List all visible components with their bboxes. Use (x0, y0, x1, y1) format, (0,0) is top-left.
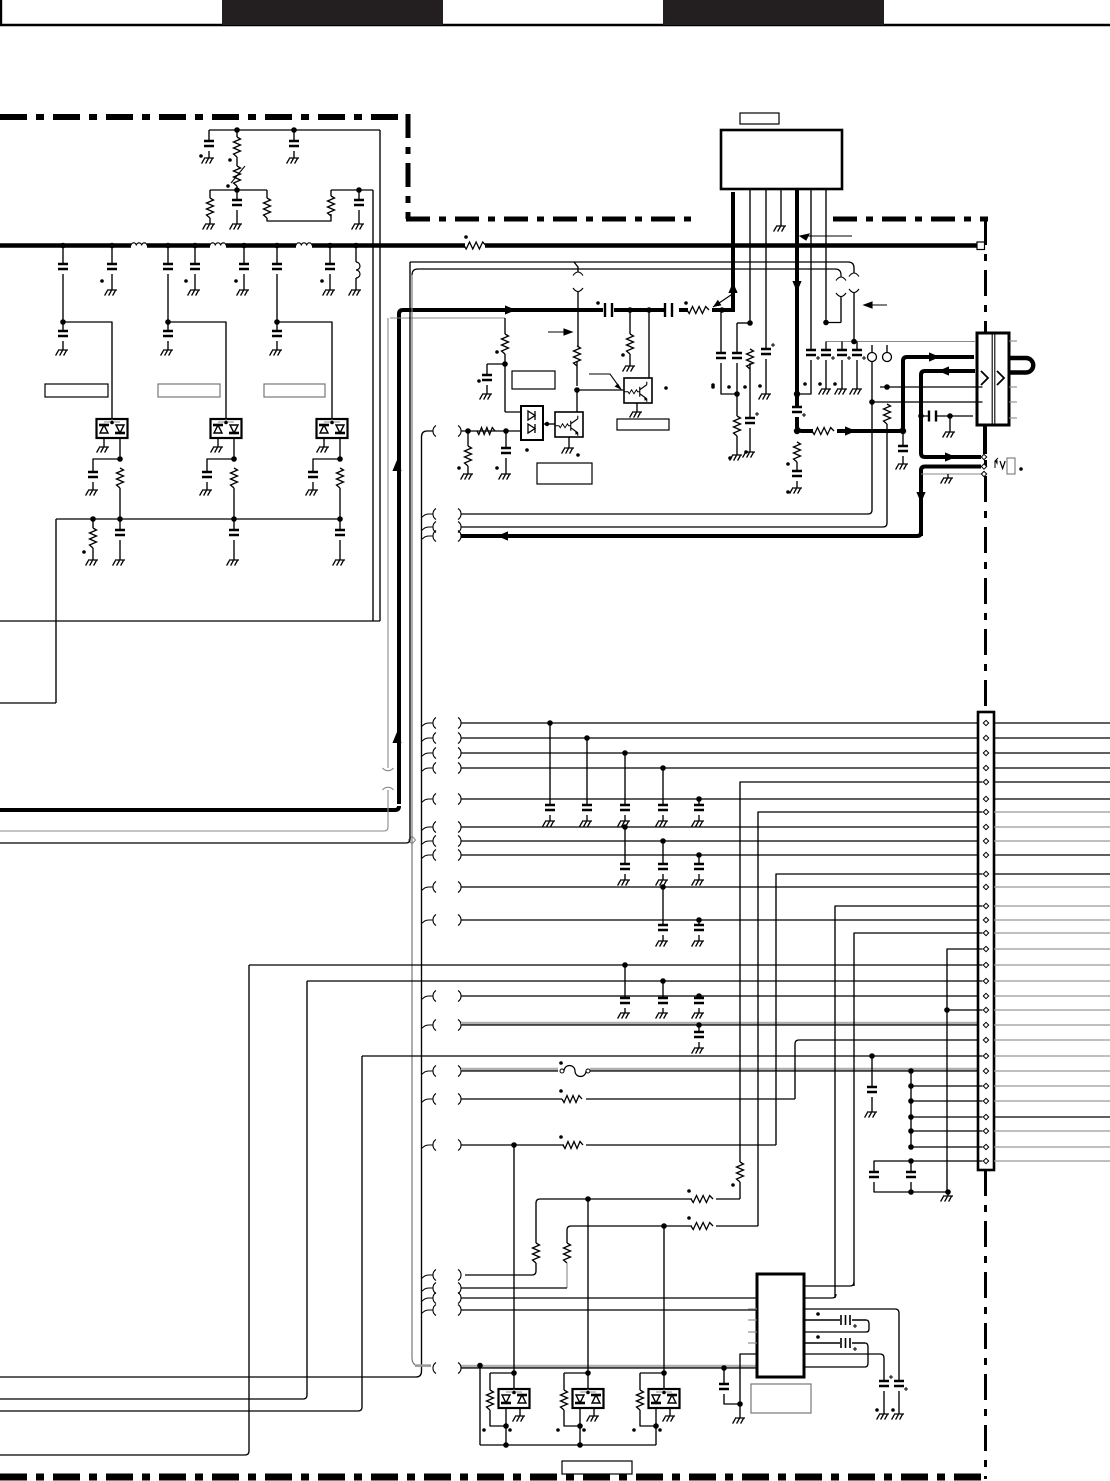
terminal (868, 353, 877, 362)
connector chevron (997, 371, 1004, 385)
junction (908, 1114, 914, 1120)
junction (274, 319, 280, 325)
net wire (994, 840, 1110, 842)
wire (62, 274, 64, 322)
wire (233, 488, 235, 519)
resistor R2 (234, 166, 241, 186)
wire (825, 189, 827, 323)
bus terminal square (977, 242, 985, 250)
junction (574, 387, 580, 393)
ground (200, 490, 212, 496)
ground (543, 821, 555, 827)
polarity dot (744, 450, 748, 454)
signal bus (921, 467, 981, 537)
resistor R25 (627, 334, 634, 354)
wire (339, 438, 341, 459)
polarity dot (803, 382, 807, 386)
junction (851, 339, 857, 345)
net wire (739, 1182, 741, 1199)
wire (765, 189, 767, 349)
wire (339, 488, 341, 519)
pin (983, 1128, 988, 1133)
wire (422, 827, 434, 831)
ground (306, 490, 318, 496)
connector break (433, 850, 461, 861)
wire (780, 189, 782, 226)
flow arrow (845, 426, 856, 435)
wire (739, 1404, 741, 1418)
wire (355, 278, 357, 290)
wire (797, 360, 811, 394)
ground (499, 474, 511, 480)
capacitor C18 (501, 448, 511, 453)
resistor R9 (734, 416, 741, 436)
capacitor C10 (272, 331, 282, 336)
polarity dot (728, 456, 732, 460)
junction (234, 187, 240, 193)
flow arrow (938, 366, 949, 375)
wire (586, 738, 588, 805)
junction (737, 1401, 743, 1407)
capacitor C23 (620, 805, 630, 810)
polarity dot (891, 1408, 895, 1412)
net wire (461, 362, 872, 514)
wire (422, 1275, 434, 1279)
polarity dot (1019, 467, 1023, 471)
net wire (387, 318, 389, 768)
wire (949, 416, 951, 432)
polarity dot (658, 1428, 662, 1432)
junction (291, 127, 297, 133)
wire (209, 218, 211, 224)
wire (293, 130, 295, 158)
ground (513, 1416, 525, 1422)
wire (624, 874, 626, 880)
net wire (461, 1068, 977, 1071)
wire (724, 1354, 757, 1404)
polarity dot (711, 385, 715, 389)
connector divider (992, 334, 995, 424)
wire (841, 360, 843, 389)
ground (161, 350, 173, 356)
transistor Q1 (555, 412, 583, 437)
net wire (461, 1022, 977, 1025)
ground (692, 821, 704, 827)
junction (696, 1022, 702, 1028)
junction (356, 187, 362, 193)
capacitor C10 (605, 303, 672, 317)
wire (236, 210, 238, 224)
pin (983, 1037, 988, 1042)
wire (119, 438, 121, 459)
wire (236, 157, 238, 190)
flow arrow (392, 460, 401, 471)
junction (660, 838, 666, 844)
wire (422, 841, 434, 845)
wire (422, 1310, 434, 1314)
wire (267, 214, 331, 221)
junction (944, 1007, 950, 1013)
polarity dot (482, 1428, 486, 1432)
net wire (795, 1040, 977, 1099)
ground (270, 350, 282, 356)
resistor R24 (502, 334, 509, 354)
resistor R8 (687, 307, 709, 314)
junction (231, 516, 237, 522)
resistor R20 (691, 1196, 713, 1203)
capacitor C28 (694, 864, 704, 869)
ground (97, 447, 109, 453)
capacitor C2 (289, 141, 299, 146)
wire (723, 1368, 725, 1384)
polarity dot (559, 1061, 563, 1065)
ground (105, 290, 117, 296)
net wire (921, 473, 981, 475)
wire (323, 438, 325, 447)
pin stub (748, 1319, 757, 1321)
pin stub (748, 1331, 757, 1333)
adjust arrow (231, 166, 245, 183)
label box (158, 384, 220, 397)
wire (480, 1444, 656, 1446)
signal bus (983, 425, 987, 454)
polarity dot (786, 490, 790, 494)
junction (660, 765, 666, 771)
capacitor C11 (716, 353, 726, 358)
polarity dot (687, 1216, 691, 1220)
diode pair D2 (211, 419, 242, 438)
junction (274, 243, 280, 249)
wire (119, 540, 121, 560)
junction (502, 361, 508, 367)
wire (698, 1025, 700, 1032)
wire (422, 723, 434, 727)
net wire (804, 1309, 899, 1381)
diode pair D3 (317, 419, 348, 438)
pin (983, 917, 988, 922)
wire (698, 920, 700, 925)
ground (941, 1196, 953, 1202)
junction (503, 428, 509, 434)
capacitor C7 (325, 264, 335, 269)
wire (422, 920, 434, 924)
polarity dot (226, 184, 230, 188)
inductor L1 (131, 243, 147, 246)
connector break (433, 1066, 461, 1077)
capacitor C9 (163, 331, 173, 336)
polarity dot (833, 382, 837, 386)
connector break (573, 272, 583, 292)
ground (211, 447, 223, 453)
junction (900, 428, 906, 434)
ground (835, 389, 847, 395)
wire (422, 887, 434, 891)
net wire (994, 1070, 1110, 1072)
junction (945, 1189, 951, 1195)
label box (45, 384, 108, 397)
wire (467, 431, 469, 474)
ground (287, 158, 299, 164)
wire (168, 322, 226, 419)
wire (577, 389, 624, 391)
ground bus (461, 1365, 757, 1368)
wire (698, 1008, 700, 1013)
capacitor C20 (852, 350, 862, 355)
junction (117, 456, 123, 462)
wire (119, 488, 121, 519)
terminal (883, 353, 892, 362)
pin (983, 1068, 988, 1073)
wire (871, 1056, 873, 1087)
wire (208, 130, 210, 141)
wire (698, 815, 700, 821)
diode pair D6 (573, 1389, 604, 1408)
capacitor C32 (658, 998, 668, 1003)
ground (480, 394, 492, 400)
wire (92, 482, 94, 490)
wire (519, 1408, 521, 1416)
polarity dot (184, 279, 188, 283)
wire (276, 274, 278, 322)
wire (194, 274, 196, 290)
capacitor C1 (58, 264, 68, 269)
wire (549, 723, 551, 805)
label box (1007, 458, 1015, 474)
net wire (461, 1144, 776, 1146)
connector break (433, 1283, 461, 1294)
diode pair D1 (97, 419, 128, 438)
junction (646, 307, 652, 313)
junction (465, 428, 471, 434)
connector break (433, 794, 461, 805)
wire (505, 354, 521, 412)
capacitor C12 (202, 472, 212, 477)
ground (323, 290, 335, 296)
ground (790, 488, 802, 494)
ground (56, 350, 68, 356)
pin (981, 454, 986, 459)
net wire (994, 1039, 1110, 1041)
net wire (412, 269, 841, 277)
connector break (433, 1293, 461, 1304)
wire (490, 1410, 506, 1426)
ground (227, 560, 239, 566)
junction (908, 1083, 914, 1089)
connector break (433, 836, 461, 847)
wire (329, 274, 331, 290)
wire (422, 1071, 434, 1075)
capacitor C8 (58, 331, 68, 336)
junction (661, 1223, 667, 1229)
wire (736, 323, 738, 353)
pin (983, 930, 988, 935)
wire (208, 151, 210, 158)
wire (461, 430, 521, 432)
pin (983, 1053, 988, 1058)
net wire (911, 1146, 983, 1148)
net wire (410, 262, 854, 273)
connector break (433, 1363, 461, 1374)
net wire (461, 1024, 977, 1026)
ground (188, 290, 200, 296)
wire (947, 1192, 949, 1196)
ground (850, 389, 862, 395)
polarity dot (816, 1335, 820, 1339)
wire (796, 462, 798, 471)
capacitor C24 (804, 1315, 866, 1325)
net wire (461, 752, 977, 754)
wire (422, 514, 434, 518)
wire (422, 738, 434, 742)
net wire (994, 1146, 1110, 1148)
wire (577, 291, 579, 346)
wire (662, 841, 664, 864)
wire (736, 394, 738, 455)
junction (241, 243, 247, 249)
wire (749, 363, 751, 418)
wire (379, 130, 381, 621)
connector break (433, 718, 461, 729)
capacitor C15 (792, 407, 802, 412)
wire (648, 311, 650, 378)
diode pair D4 (521, 406, 543, 440)
capacitor C27 (658, 864, 668, 869)
signal bus hairpin (1009, 358, 1033, 373)
capacitor C22 (582, 805, 592, 810)
label box (562, 1461, 632, 1474)
connector break (433, 1020, 461, 1031)
net wire (461, 1287, 567, 1289)
net wire (994, 1024, 1110, 1026)
resistor R10 (747, 349, 754, 369)
junction (908, 1144, 914, 1150)
ground (333, 560, 345, 566)
wire (655, 1408, 657, 1445)
capacitor C4 (190, 264, 200, 269)
polarity dot (457, 466, 461, 470)
wire (736, 363, 738, 394)
net wire (461, 995, 977, 997)
junction (545, 422, 549, 426)
junction (585, 1196, 591, 1202)
ground (656, 880, 668, 886)
junction (719, 307, 725, 313)
net wire (994, 919, 1110, 921)
net wire (872, 401, 983, 403)
net wire (465, 1263, 536, 1275)
wire (947, 474, 949, 478)
connector break (836, 277, 846, 297)
net wire (950, 415, 973, 417)
pin (983, 750, 988, 755)
IC U2 (757, 1274, 804, 1377)
wire (266, 190, 268, 198)
polarity dot (711, 383, 715, 387)
wire (479, 1368, 481, 1445)
resistor R4 (264, 198, 271, 218)
wire (698, 799, 700, 805)
connector break (433, 991, 461, 1002)
wire (902, 456, 904, 464)
wire (883, 1391, 885, 1414)
wire (422, 527, 434, 531)
junction (947, 413, 953, 419)
net wire (461, 737, 977, 739)
resistor R23 (564, 1243, 571, 1263)
wire (698, 935, 700, 941)
polarity dot (464, 235, 468, 239)
flow arrow (929, 352, 940, 361)
wire (624, 1008, 626, 1013)
wire (586, 815, 588, 821)
header bar frame (0, 0, 1110, 26)
net wire (804, 1354, 884, 1381)
wire (720, 311, 722, 353)
polarity dot (525, 448, 529, 452)
junction (794, 428, 800, 434)
wire (636, 403, 638, 412)
pinch (409, 836, 416, 844)
connector break (849, 273, 859, 293)
capacitor C34 (694, 1032, 704, 1037)
net wire (0, 1056, 983, 1411)
wire (640, 1373, 664, 1390)
board border bottom (0, 1474, 986, 1481)
capacitor C21 (869, 1172, 879, 1177)
capacitor C24 (658, 805, 668, 810)
wire (422, 996, 434, 1000)
polarity dot (320, 279, 324, 283)
wire (698, 855, 700, 864)
net wire (0, 262, 410, 843)
capacitor C25 (804, 1338, 865, 1348)
net wire (0, 981, 983, 1399)
net wire (874, 1182, 948, 1192)
net wire (994, 1009, 1110, 1011)
net wire (994, 1085, 1110, 1087)
capacitor C19 (837, 350, 847, 355)
wire (886, 345, 888, 352)
junction (696, 993, 702, 999)
wire (167, 245, 169, 264)
wire (568, 437, 570, 448)
pin stub (748, 1308, 757, 1310)
net wire (994, 905, 1110, 907)
wire (372, 190, 374, 621)
net wire (461, 798, 977, 800)
junction (622, 962, 628, 968)
junction (477, 1363, 483, 1369)
resistor R3 (207, 198, 214, 218)
polarity dot (477, 379, 481, 383)
ground (733, 1418, 745, 1424)
wire (207, 459, 234, 472)
net wire (994, 752, 1110, 754)
net wire (461, 1297, 757, 1299)
label box (617, 419, 669, 430)
net wire (994, 722, 1110, 724)
wire (749, 189, 751, 323)
polarity dot (596, 301, 600, 305)
pin (983, 809, 988, 814)
wire (167, 274, 169, 322)
wire (103, 438, 105, 447)
polarity dot (495, 350, 499, 354)
pin (983, 720, 988, 725)
junction (192, 243, 198, 249)
ground (562, 448, 574, 454)
ground (86, 560, 98, 566)
